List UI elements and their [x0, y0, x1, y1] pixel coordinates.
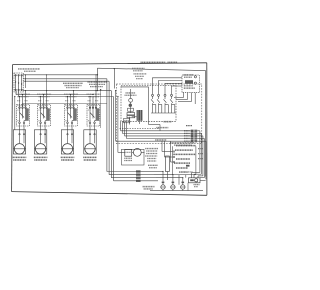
- infinite switch SW3 (LR surface unit): [65, 105, 78, 127]
- label: circuit breaker note: [18, 69, 40, 71]
- label: lamp wire tags: [181, 171, 186, 173]
- oven light switch assembly (dashed box): [182, 75, 200, 93]
- connector P2 stack: [136, 170, 158, 182]
- buzzer BZ1: [129, 98, 133, 104]
- wire: SW3 to element: [68, 124, 73, 134]
- oven temperature sensor R1: [166, 156, 170, 180]
- wire: branch drop to control box top: [114, 68, 115, 89]
- label: part number 8101P446-60: [141, 61, 178, 63]
- wire: clock internal connections: [130, 89, 140, 125]
- label: oven sensor text: [148, 165, 158, 167]
- wire bundle: risers to bottom connector: [101, 79, 137, 181]
- surface element E4 (RR): [84, 130, 96, 154]
- label: bake/broil row above selector: [170, 143, 194, 145]
- label: wire colors at SW1: [17, 100, 28, 102]
- label: LT &amp; RT FRT surface unit switch title: [63, 83, 83, 87]
- terminal block TB1 (L1/N/L2 power supply): [14, 73, 23, 92]
- transformer T1: [137, 110, 143, 121]
- label: LR surface switch: [64, 94, 78, 96]
- wire: feeds from buses into SW4: [89, 90, 96, 107]
- label: P1 top tag: [186, 125, 192, 127]
- wire: L2 drop to element 1: [14, 96, 15, 130]
- lock assembly enclosure: [122, 149, 145, 165]
- label: wire row text: [155, 139, 166, 141]
- wire: feeds from buses into SW2: [40, 90, 47, 107]
- wire bundle: supply buses from terminal block: [16, 75, 114, 97]
- label: clock row text: [156, 127, 168, 129]
- wire: feeds from buses into SW1: [19, 90, 26, 107]
- wire: lock circuit connections: [118, 151, 125, 153]
- surface element E2 (RF): [34, 130, 46, 154]
- door lock solenoid box: [189, 178, 201, 183]
- wire: terminal block tap riser: [25, 74, 26, 88]
- wire: SW4 to element: [90, 124, 95, 134]
- wire: L1 riser to top rail: [96, 75, 98, 91]
- connector P1 pin stack with wire color labels: [184, 130, 206, 180]
- label: lock: [194, 185, 200, 187]
- infinite switch SW2 (RF surface unit): [38, 105, 51, 127]
- control assembly outer dashed boundary: [116, 84, 202, 144]
- wire: lamp assembly staircase: [152, 78, 195, 104]
- relay contacts K1: [127, 108, 135, 118]
- oven light switch S2: [184, 75, 197, 78]
- wire: bottom right links: [179, 175, 206, 191]
- infinite switch SW4 (RR surface unit): [87, 105, 100, 127]
- wire: feeds into selector switch: [162, 141, 173, 162]
- label: selector side wire tags: [198, 149, 203, 159]
- label: wire colors at SW4: [88, 100, 99, 102]
- label: oven light: [132, 68, 147, 78]
- wire: top rail L1: [97, 68, 205, 176]
- label: E4 wattage: [83, 157, 97, 160]
- label: wire colors at SW3: [65, 100, 76, 102]
- label: RF surface switch: [37, 94, 51, 96]
- door lock switch box S4: [125, 150, 132, 157]
- wire: SW2 to element: [41, 124, 46, 134]
- label: E3 wattage: [61, 157, 75, 160]
- terminal box lower left of clock: [124, 118, 130, 122]
- wire: feeds from buses into SW3: [67, 90, 74, 107]
- label: electronic oven control: [125, 93, 137, 95]
- label: wire colors at SW2: [38, 100, 49, 102]
- junction dots on buses: [97, 74, 102, 91]
- surface element E3 (LR): [61, 130, 73, 154]
- label: latch switch text stack: [145, 149, 158, 161]
- label: CONN PL: [143, 187, 155, 189]
- label: LF surface switch: [16, 94, 30, 96]
- label: rear surface unit switch title: [88, 82, 107, 87]
- capacitor/disc component C1: [129, 104, 132, 107]
- surface element E1 (LF): [13, 130, 25, 154]
- label: RR surface switch: [87, 94, 101, 96]
- relay contact row K2-K5: [151, 94, 176, 113]
- wire: long feeds to top bus: [46, 74, 97, 90]
- indicator lights PL1 PL2 PL3: [150, 171, 203, 191]
- electronic range control U1 (dashed outline): [121, 86, 176, 122]
- wire: SW1 to element: [20, 124, 25, 134]
- wire: P1 risers into lock area: [192, 173, 205, 178]
- infinite switch SW1 (LF surface unit): [17, 105, 30, 127]
- wire: rail under lights: [150, 190, 203, 192]
- door lock motor M1: [132, 149, 145, 157]
- label: relays: [164, 121, 172, 123]
- oven selector switch S3: [173, 146, 197, 175]
- wire rows: clock outputs to connector: [116, 87, 191, 141]
- label: lock motor: [124, 158, 132, 160]
- wire: link bus along switch row: [23, 103, 107, 107]
- diagram border frame: [12, 63, 207, 196]
- oven lamp DS1: [184, 80, 197, 88]
- label: E2 wattage: [34, 157, 48, 160]
- label: E1 wattage: [13, 157, 27, 160]
